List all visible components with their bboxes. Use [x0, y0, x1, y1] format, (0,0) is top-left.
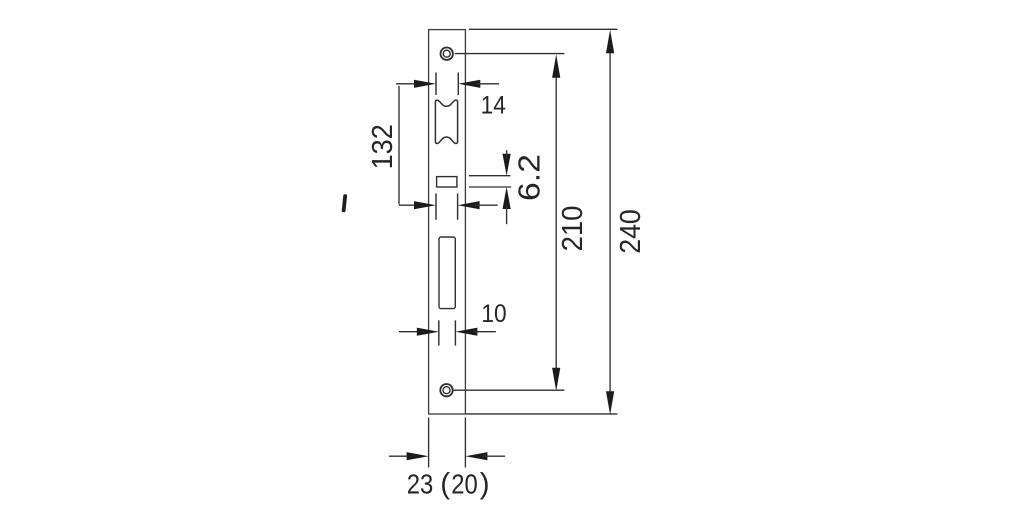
latch rectangle cutout 6.2: [437, 177, 457, 187]
dimension 132 lower row: left extension tick: [435, 194, 437, 220]
dimension 14: right leader wire: [477, 83, 499, 85]
spindle cutout: [435, 100, 457, 143]
dimension 6.2: upper arrowhead: [503, 154, 511, 176]
dimension 6.2: upper wire: [506, 150, 508, 158]
dimension 132 lower row: left leader wire: [399, 204, 420, 206]
dimension 240: upper arrowhead: [606, 30, 614, 54]
dimension 10: right arrowhead: [455, 328, 477, 336]
svg-text:23: 23: [407, 468, 434, 500]
dimension 10: left leader wire: [399, 331, 421, 333]
faceplate outline: [429, 30, 466, 414]
svg-text:240: 240: [615, 209, 647, 254]
dimension 14: right extension tick: [457, 73, 459, 96]
dimension 14: left extension tick: [435, 73, 437, 96]
dimension 23 (20): left extension wire below plate: [428, 418, 430, 468]
dimension 14: right arrowhead: [458, 80, 480, 88]
top screw hole: [441, 48, 453, 60]
dimension 6.2: lower arrowhead: [503, 187, 511, 209]
dimension 10: right leader wire: [473, 331, 496, 333]
svg-text:(: (: [440, 468, 450, 501]
dimension 6.2: bottom extension wire: [469, 186, 511, 188]
dimension 132: vertical dimension wire: [398, 86, 400, 204]
dimension 10: right extension tick: [454, 320, 456, 345]
dimension 132 lower row: right arrowhead: [458, 201, 480, 209]
dimension 14: left arrowhead: [414, 80, 436, 88]
svg-text:14: 14: [481, 92, 506, 119]
dimension 210: top reference wire: [455, 53, 565, 55]
dimension 10: left extension tick: [438, 320, 440, 345]
dimension 6.2: lower wire: [506, 205, 508, 224]
dimension 10: left arrowhead: [417, 328, 439, 336]
svg-text:132: 132: [367, 124, 399, 169]
dimension 132 lower row: left arrowhead: [414, 201, 436, 209]
svg-text:210: 210: [557, 206, 589, 252]
dimension 23 (20): right extension wire below plate: [464, 418, 466, 468]
dimension 14: left leader wire: [396, 83, 418, 85]
svg-text:6.2: 6.2: [512, 154, 547, 201]
dimension 23 (20): right arrowhead: [465, 452, 487, 460]
dimension 240: top reference wire: [469, 28, 618, 30]
bottom screw hole: [440, 384, 452, 396]
dimension 23 (20): left arrowhead: [407, 452, 429, 460]
dimension 6.2: top extension wire: [469, 175, 511, 177]
svg-text:): ): [480, 468, 490, 501]
dimension 210: lower arrowhead: [552, 368, 560, 391]
dimension 23 (20): right leader wire: [483, 455, 505, 457]
stray ink mark: [342, 194, 348, 212]
deadbolt rectangle cutout 10: [439, 237, 455, 309]
dimension 240: lower arrowhead: [606, 391, 614, 414]
dimension 240: bottom reference wire: [466, 413, 617, 415]
dimension 240: vertical dimension wire: [609, 49, 611, 395]
dimension 210: upper arrowhead: [552, 54, 560, 77]
dimension 210: bottom reference wire: [454, 389, 565, 391]
dimension 23 (20): left leader wire: [389, 455, 411, 457]
svg-text:20: 20: [451, 468, 478, 500]
dimension 132 lower row: right extension tick: [457, 194, 459, 220]
svg-text:10: 10: [481, 301, 506, 328]
dimension 132 lower row: right leader wire: [475, 204, 498, 206]
dimension 210: vertical dimension wire: [555, 74, 557, 372]
